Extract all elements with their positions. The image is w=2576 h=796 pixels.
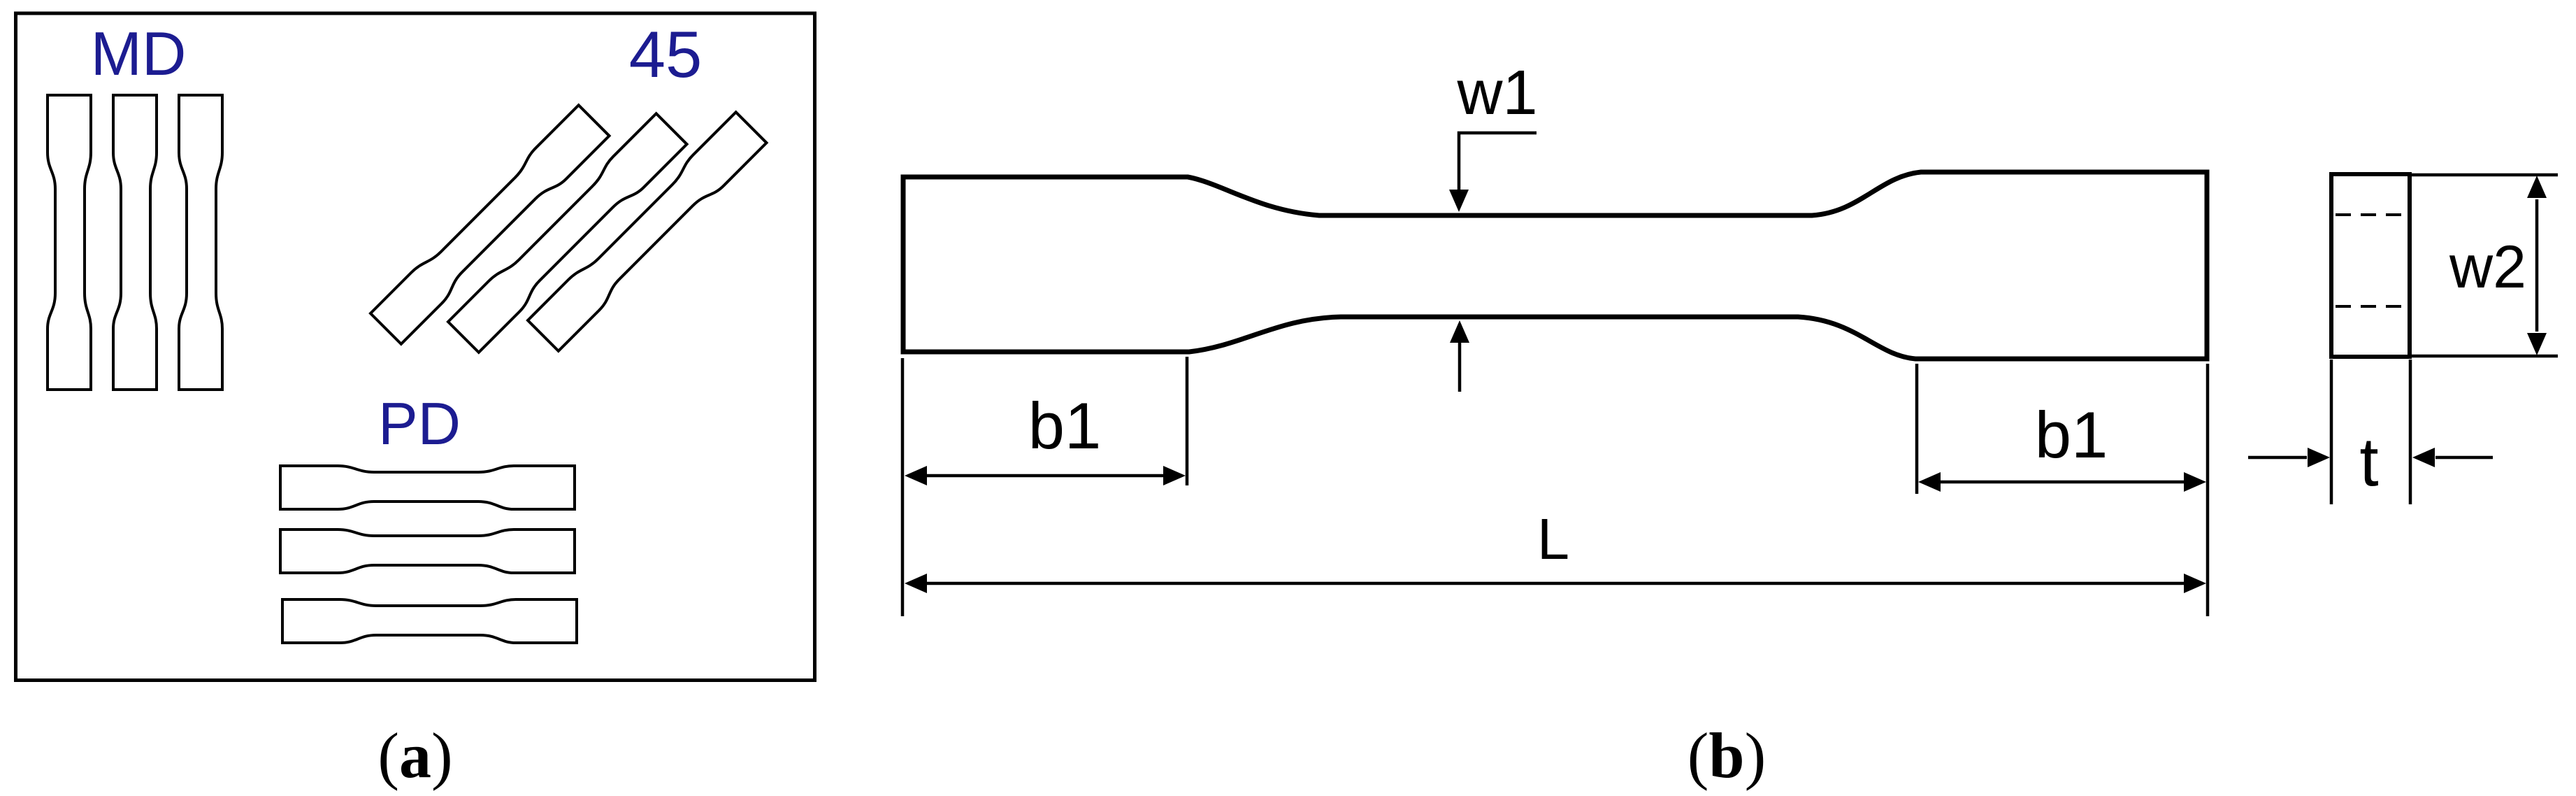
PD specimen 1: [280, 466, 575, 509]
cross-section dashed line upper: [2336, 213, 2407, 216]
w1 leader with down arrow: [1449, 133, 1537, 212]
svg-text:L: L: [1537, 506, 1569, 571]
svg-text:w1: w1: [1456, 58, 1537, 128]
cross-section dashed line lower: [2336, 305, 2407, 308]
svg-text:MD: MD: [91, 19, 187, 88]
label b1 right: [2035, 398, 2108, 471]
label L: [1537, 506, 1569, 571]
svg-text:(b): (b): [1688, 720, 1766, 791]
MD specimen 3: [179, 95, 222, 390]
caption (b): [1688, 720, 1766, 791]
svg-text:45: 45: [629, 17, 703, 91]
label w1: [1456, 58, 1537, 128]
label t: [2359, 423, 2378, 500]
caption (a): [377, 720, 452, 791]
svg-text:PD: PD: [378, 391, 461, 457]
w1 up arrow below gauge: [1450, 320, 1469, 392]
label PD: [378, 391, 461, 457]
L dimension arrow: [905, 574, 2206, 593]
w2 extension line bottom: [2410, 355, 2558, 358]
t extension line left: [2330, 360, 2333, 504]
w2 dimension arrow: [2527, 176, 2547, 355]
extension line right (shared b1 and L): [2206, 364, 2210, 616]
label b1 left: [1028, 389, 1102, 462]
svg-text:(a): (a): [377, 720, 452, 791]
t extension line right: [2409, 360, 2412, 504]
label MD: [91, 19, 187, 88]
45 specimen 1: [370, 105, 610, 344]
t arrow left: [2248, 448, 2330, 467]
extension line b1 left inner: [1186, 357, 1189, 485]
extension line b1 right inner: [1915, 364, 1919, 494]
PD specimen 2: [280, 530, 575, 573]
svg-text:b1: b1: [2035, 398, 2108, 471]
PD specimen 3: [282, 599, 577, 643]
45 specimen 3: [528, 112, 767, 351]
extension line left (shared b1 and L): [901, 358, 905, 616]
svg-text:t: t: [2359, 423, 2378, 500]
t arrow right: [2412, 448, 2493, 467]
b1 right dimension arrow: [1918, 472, 2206, 492]
panel b dogbone outline: [903, 172, 2207, 359]
MD specimen 1: [48, 95, 91, 390]
b1 left dimension arrow: [905, 466, 1186, 485]
label w2: [2449, 234, 2526, 301]
cross-section rectangle: [2331, 174, 2410, 357]
svg-text:w2: w2: [2449, 234, 2526, 301]
45 specimen 2: [448, 113, 687, 353]
w2 extension line top: [2410, 173, 2558, 177]
MD specimen 2: [113, 95, 157, 390]
label 45: [629, 17, 703, 91]
panel a frame box: [16, 13, 815, 681]
svg-text:b1: b1: [1028, 389, 1102, 462]
